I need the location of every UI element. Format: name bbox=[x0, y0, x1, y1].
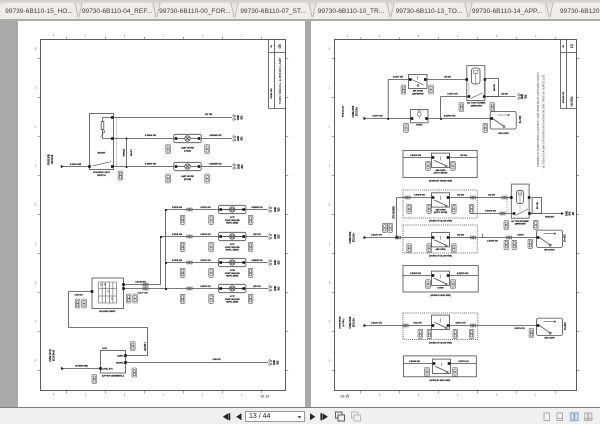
connector C1 bbox=[118, 171, 123, 180]
svg-text:(LH2A): (LH2A) bbox=[184, 149, 191, 152]
svg-text:E: E bbox=[35, 282, 37, 285]
svg-text:DOWN MODE: DOWN MODE bbox=[340, 316, 342, 329]
svg-text:(F10+AC1C): (F10+AC1C) bbox=[342, 106, 345, 117]
svg-text:(F10) B+: (F10) B+ bbox=[356, 106, 358, 116]
connector C17 bbox=[407, 204, 412, 213]
power feed arrow bbox=[364, 236, 367, 239]
svg-text:W/SEAL: W/SEAL bbox=[123, 148, 126, 157]
connector C19 bbox=[504, 221, 509, 230]
svg-text:B/D: B/D bbox=[242, 164, 244, 168]
lamp E2 bbox=[174, 162, 201, 170]
svg-text:4: 4 bbox=[329, 321, 331, 324]
pin bbox=[537, 324, 540, 327]
horn unit bbox=[432, 271, 450, 285]
svg-text:SWITCH: SWITCH bbox=[97, 175, 106, 177]
svg-text:0.5G/W GN: 0.5G/W GN bbox=[410, 273, 421, 275]
relay K2 contact links (dashed) bbox=[507, 199, 520, 214]
svg-text:G/Y GUARD: G/Y GUARD bbox=[392, 206, 395, 219]
relay K1 contact lever bbox=[471, 93, 483, 99]
svg-text:0.85B/R GD: 0.85B/R GD bbox=[251, 207, 263, 209]
svg-text:09: 09 bbox=[278, 44, 282, 48]
connector C13 bbox=[404, 123, 409, 132]
pin bbox=[466, 78, 469, 81]
connector C3 bbox=[166, 174, 171, 183]
svg-text:HORN: HORN bbox=[416, 125, 423, 127]
svg-text:B/LOW: B/LOW bbox=[494, 84, 496, 91]
svg-text:0.5P/G GN: 0.5P/G GN bbox=[458, 361, 469, 363]
svg-text:0.5P/G: 0.5P/G bbox=[517, 234, 524, 236]
svg-text:LIMIT WORK: LIMIT WORK bbox=[181, 176, 195, 178]
svg-text:STOLEN VER: STOLEN VER bbox=[563, 91, 565, 103]
control unit H-02 (LEVEL-SYS) bbox=[101, 351, 126, 374]
wire bbox=[403, 363, 476, 365]
connector C24 bbox=[529, 329, 534, 338]
svg-text:F: F bbox=[329, 360, 331, 363]
connector C12 bbox=[459, 103, 464, 112]
relay K1 coil bbox=[472, 68, 481, 84]
inline connector pair X5 bbox=[187, 287, 192, 290]
pin bbox=[433, 362, 436, 365]
svg-text:8: 8 bbox=[418, 35, 420, 38]
svg-text:0.5G GN: 0.5G GN bbox=[413, 322, 422, 324]
svg-text:GD 7/B: GD 7/B bbox=[205, 114, 213, 116]
svg-text:1: 1 bbox=[163, 35, 165, 38]
svg-text:0: 0 bbox=[202, 393, 204, 396]
svg-text:J-P/T: J-P/T bbox=[230, 217, 236, 219]
pin bbox=[175, 165, 178, 168]
relay K2 body bbox=[511, 184, 529, 218]
svg-text:0.5L/Y GN: 0.5L/Y GN bbox=[138, 293, 148, 295]
svg-text:0.5G/W GN: 0.5G/W GN bbox=[410, 155, 421, 157]
wire bbox=[103, 118, 112, 139]
ground bbox=[233, 163, 236, 170]
svg-text:B/X: B/X bbox=[525, 94, 527, 98]
air horn speaker bbox=[537, 318, 563, 336]
svg-text:0: 0 bbox=[202, 35, 204, 38]
wire bbox=[160, 237, 162, 285]
svg-text:LAMP1: LAMP1 bbox=[117, 355, 123, 358]
svg-text:0.5G/Y GN: 0.5G/Y GN bbox=[447, 93, 458, 95]
tab bar bbox=[0, 0, 600, 21]
svg-text:JOINT W/HOSE: JOINT W/HOSE bbox=[225, 220, 241, 222]
svg-text:1: 1 bbox=[329, 87, 331, 90]
inline connector pair X7 bbox=[405, 196, 410, 199]
connector block (B/X) at K2 bbox=[532, 198, 541, 214]
relay K3 contact grid bbox=[99, 282, 117, 303]
power feed arrow bbox=[364, 324, 367, 327]
svg-text:JOINT W/HOSE: JOINT W/HOSE bbox=[225, 273, 241, 275]
svg-text:GND: GND bbox=[275, 234, 277, 239]
svg-text:(J-T ALL): (J-T ALL) bbox=[342, 318, 345, 326]
svg-text:0.5P/G GN: 0.5P/G GN bbox=[200, 207, 211, 209]
svg-text:GND: GND bbox=[275, 207, 277, 212]
junction J6 bbox=[396, 237, 398, 239]
variant container (HORN KIT SLOW VER, dashed) bbox=[403, 190, 477, 218]
svg-text:GD: GD bbox=[573, 211, 575, 215]
wire bbox=[201, 138, 232, 140]
wire bbox=[519, 195, 521, 204]
pin bbox=[124, 354, 127, 357]
connector C22 bbox=[426, 280, 431, 289]
svg-text:0.5P/G GN: 0.5P/G GN bbox=[514, 328, 525, 330]
svg-text:GD GN: GD GN bbox=[457, 195, 464, 197]
pin bbox=[432, 196, 435, 199]
svg-text:0.5R/W GN: 0.5R/W GN bbox=[145, 135, 157, 137]
wire bbox=[114, 138, 161, 140]
inline connector pair X4 bbox=[143, 287, 148, 290]
resistor R1 wiper arrow bbox=[100, 131, 105, 138]
lamp E3 bbox=[219, 205, 246, 213]
wire bbox=[396, 198, 398, 238]
wire bbox=[114, 139, 174, 167]
ground bbox=[269, 285, 272, 292]
connector C12 bbox=[131, 342, 136, 351]
pin bbox=[432, 156, 435, 159]
svg-text:(OPTION SEGMENT)-2: (OPTION SEGMENT)-2 bbox=[102, 375, 125, 377]
connector C20 bbox=[407, 244, 412, 253]
svg-text:0.5P/G GN: 0.5P/G GN bbox=[200, 234, 211, 236]
air horn speaker bbox=[537, 230, 563, 248]
svg-text:16-13: 16-13 bbox=[260, 395, 269, 399]
svg-text:8: 8 bbox=[124, 35, 126, 38]
svg-text:4: 4 bbox=[53, 393, 55, 396]
pin bbox=[411, 117, 414, 120]
svg-text:HDPIL J/E804: HDPIL J/E804 bbox=[226, 250, 240, 252]
svg-text:B/D GN: B/D GN bbox=[253, 286, 261, 288]
connector C21 bbox=[504, 240, 509, 249]
svg-text:0.5G/W GN: 0.5G/W GN bbox=[414, 195, 425, 197]
svg-text:1: 1 bbox=[163, 393, 165, 396]
svg-text:J-P/T: J-P/T bbox=[230, 296, 236, 298]
wire bbox=[486, 96, 516, 98]
svg-text:HDPIL 2/E30: HDPIL 2/E30 bbox=[226, 302, 239, 304]
svg-text:F: F bbox=[35, 360, 37, 363]
svg-text:B/D: B/D bbox=[278, 234, 280, 238]
svg-text:GND: GND bbox=[238, 115, 240, 120]
svg-text:(HORN KIT SNOW VER): (HORN KIT SNOW VER) bbox=[429, 180, 452, 182]
lamp E1 bbox=[174, 134, 201, 142]
svg-text:B/D: B/D bbox=[278, 207, 280, 211]
wire label GD B/LT bbox=[145, 342, 147, 351]
svg-text:1: 1 bbox=[535, 393, 537, 396]
wire bbox=[201, 166, 232, 168]
power feed arrow bbox=[61, 367, 64, 370]
junction J3 bbox=[165, 288, 167, 290]
svg-text:4: 4 bbox=[53, 35, 55, 38]
wire bbox=[125, 284, 161, 286]
svg-text:B/D: B/D bbox=[241, 136, 243, 140]
title block (right page) bbox=[561, 40, 577, 109]
svg-text:GND: GND bbox=[566, 211, 568, 216]
svg-text:W/LIGHT: W/LIGHT bbox=[98, 152, 107, 154]
lamp E5 bbox=[219, 258, 246, 266]
svg-text:B+ B/X: B+ B/X bbox=[565, 234, 567, 242]
wire bbox=[388, 79, 409, 81]
svg-text:GHI-6B110-07 ALWAYS WORK (J10/: GHI-6B110-07 ALWAYS WORK (J10/HIGH) LAMP… bbox=[537, 72, 540, 168]
svg-text:0.5G/Y GN: 0.5G/Y GN bbox=[372, 116, 383, 118]
horn unit bbox=[432, 193, 450, 207]
wire bbox=[69, 292, 148, 356]
junction J5 bbox=[440, 118, 442, 120]
ground bbox=[269, 233, 272, 240]
junction J1 bbox=[126, 138, 128, 140]
relay K1 body bbox=[467, 66, 485, 101]
svg-text:FUSE (F13): FUSE (F13) bbox=[50, 349, 52, 361]
svg-text:0.5P/G GN: 0.5P/G GN bbox=[200, 260, 211, 262]
relay K1 contact links (dashed) bbox=[469, 82, 484, 96]
svg-text:B/D: B/D bbox=[241, 115, 243, 119]
svg-text:B/D: B/D bbox=[278, 286, 280, 290]
ground bbox=[269, 206, 272, 213]
pin bbox=[122, 283, 125, 286]
connector C15 bbox=[383, 223, 388, 232]
svg-text:B/X: B/X bbox=[570, 211, 572, 215]
wire bbox=[397, 197, 512, 199]
svg-text:0.5G/W GN: 0.5G/W GN bbox=[485, 210, 496, 212]
svg-text:JOINT W/HOSE: JOINT W/HOSE bbox=[225, 299, 241, 301]
svg-text:AIR HORN: AIR HORN bbox=[436, 169, 446, 172]
svg-text:1: 1 bbox=[35, 87, 37, 90]
svg-text:AMP/HORN: AMP/HORN bbox=[515, 223, 526, 226]
svg-text:1: 1 bbox=[457, 393, 459, 396]
svg-text:3: 3 bbox=[85, 393, 87, 396]
svg-text:B+ B/X: B+ B/X bbox=[520, 115, 522, 123]
svg-text:GND: GND bbox=[275, 286, 277, 291]
svg-text:AIR HORN: AIR HORN bbox=[436, 248, 446, 251]
svg-text:A/C TOW STOWER: A/C TOW STOWER bbox=[467, 102, 486, 105]
inline connector pair X2 bbox=[187, 235, 192, 238]
svg-text:FUSE BOX: FUSE BOX bbox=[350, 231, 352, 243]
pin bbox=[510, 196, 513, 199]
relay K3 contact marks bbox=[100, 284, 113, 300]
svg-text:3: 3 bbox=[329, 243, 331, 246]
svg-text:2: 2 bbox=[329, 165, 331, 168]
svg-text:B: B bbox=[329, 48, 331, 51]
svg-text:(0.5)P/G GN: (0.5)P/G GN bbox=[457, 273, 469, 275]
svg-text:0.5G/O GN: 0.5G/O GN bbox=[371, 234, 382, 236]
svg-text:0.5P/G GN: 0.5P/G GN bbox=[200, 286, 211, 288]
wire bbox=[403, 157, 477, 159]
svg-text:ECU 5A+B: ECU 5A+B bbox=[52, 349, 55, 361]
svg-text:1: 1 bbox=[457, 35, 459, 38]
svg-text:0.85B/R GD: 0.85B/R GD bbox=[251, 260, 263, 262]
svg-text:FUSE BOX: FUSE BOX bbox=[353, 105, 355, 117]
inline connector pair X6 bbox=[143, 283, 148, 286]
svg-text:GD GN: GD GN bbox=[444, 76, 451, 78]
horn unit bbox=[432, 233, 450, 247]
svg-text:HDPIL 2/E30: HDPIL 2/E30 bbox=[226, 276, 239, 278]
svg-text:0.5R/G WB: 0.5R/G WB bbox=[70, 164, 82, 166]
air horn amp unit U1 bbox=[409, 75, 428, 89]
power feed arrow bbox=[61, 165, 64, 168]
svg-text:(HORN KIT SLOW VER): (HORN KIT SLOW VER) bbox=[429, 220, 452, 222]
connector C9 bbox=[126, 294, 131, 303]
inline connector pair X8 bbox=[500, 212, 505, 215]
svg-text:3: 3 bbox=[35, 243, 37, 246]
svg-text:B/D GN: B/D GN bbox=[253, 234, 261, 236]
wire bbox=[367, 118, 411, 120]
variant container (HORN KIT SNOW VER) bbox=[403, 151, 477, 178]
horn symbol inside S2 bbox=[417, 112, 421, 116]
svg-text:B/X GD: B/X GD bbox=[537, 202, 539, 209]
svg-text:3: 3 bbox=[85, 35, 87, 38]
svg-text:8: 8 bbox=[124, 393, 126, 396]
svg-text:FUSE (F6): FUSE (F6) bbox=[48, 154, 50, 165]
svg-text:GND: GND bbox=[522, 94, 524, 99]
svg-text:SH: SH bbox=[563, 44, 565, 47]
pin bbox=[537, 236, 540, 239]
variant container (HORN KIT SLOW VER 3, dashed) bbox=[403, 313, 478, 340]
svg-text:0.85W/B GD: 0.85W/B GD bbox=[209, 164, 222, 166]
ground bbox=[518, 93, 521, 100]
svg-text:0: 0 bbox=[496, 35, 498, 38]
svg-text:10A W+B: 10A W+B bbox=[51, 154, 54, 164]
svg-text:0.5L/W GN: 0.5L/W GN bbox=[135, 281, 146, 283]
svg-text:HORN: HORN bbox=[570, 96, 574, 107]
svg-text:AIR HORN: AIR HORN bbox=[498, 132, 509, 135]
relay K2 contact lever bbox=[516, 209, 529, 216]
pin bbox=[432, 236, 435, 239]
connector C4 bbox=[180, 215, 185, 224]
switch lever inside U1 bbox=[412, 76, 424, 85]
svg-text:AIR HORN: AIR HORN bbox=[413, 90, 424, 93]
svg-text:AMP/HORN: AMP/HORN bbox=[471, 104, 483, 107]
svg-text:HLEVK3: HLEVK3 bbox=[116, 363, 123, 365]
svg-text:AMP/DRIVE: AMP/DRIVE bbox=[412, 93, 424, 96]
pin bbox=[432, 274, 435, 277]
variant container (HORN ID SIGN VER 2) bbox=[403, 356, 476, 377]
svg-text:10: 10 bbox=[570, 44, 574, 48]
connector C8 bbox=[75, 299, 80, 308]
svg-text:B/D: B/D bbox=[278, 260, 280, 264]
wire bbox=[124, 288, 268, 290]
inline connector pair X10 bbox=[470, 236, 475, 239]
svg-text:A/T TOW STOWER: A/T TOW STOWER bbox=[511, 220, 529, 223]
svg-text:GND: GND bbox=[238, 164, 240, 169]
wire bbox=[367, 237, 433, 239]
pin bbox=[490, 117, 493, 120]
inline connector pair X11 bbox=[403, 324, 408, 327]
svg-text:1: 1 bbox=[241, 393, 243, 396]
svg-text:3: 3 bbox=[379, 35, 381, 38]
wire bbox=[127, 362, 268, 364]
wire bbox=[449, 325, 537, 327]
svg-text:(RH2B): (RH2B) bbox=[184, 179, 192, 181]
wire bbox=[475, 73, 477, 84]
svg-text:4: 4 bbox=[347, 35, 349, 38]
pin bbox=[111, 116, 114, 119]
connector C10 bbox=[92, 375, 97, 384]
svg-text:E: E bbox=[329, 282, 331, 285]
svg-text:0.5P/B GN: 0.5P/B GN bbox=[172, 260, 182, 262]
air horn speaker bbox=[490, 112, 516, 130]
connector C5 bbox=[180, 242, 185, 251]
wire bbox=[367, 325, 433, 327]
connector C11 bbox=[132, 368, 137, 377]
svg-text:GND: GND bbox=[275, 260, 277, 265]
inline connector pair X1 bbox=[187, 208, 192, 211]
svg-text:GD/B B/X: GD/B B/X bbox=[545, 217, 555, 219]
svg-text:B: B bbox=[35, 48, 37, 51]
svg-text:DETAIL W/H: DETAIL W/H bbox=[270, 88, 273, 99]
svg-text:(HORN KIT SLOW VER): (HORN KIT SLOW VER) bbox=[429, 256, 452, 258]
relay K2 coil bbox=[517, 190, 524, 203]
title block (left page) bbox=[269, 40, 286, 109]
svg-text:B/D: B/D bbox=[277, 360, 279, 364]
relay K3 (HOLDING RELAY) body bbox=[92, 278, 124, 309]
svg-text:SH: SH bbox=[271, 44, 273, 47]
wire bbox=[531, 213, 561, 215]
svg-text:0.5G/W GN: 0.5G/W GN bbox=[409, 361, 420, 363]
inline connector pair X12 bbox=[470, 324, 475, 327]
connector C23 bbox=[418, 329, 423, 338]
wire bbox=[471, 213, 513, 215]
svg-text:0.5G/Y GN: 0.5G/Y GN bbox=[393, 76, 404, 78]
svg-text:GD B/LT: GD B/LT bbox=[145, 342, 147, 351]
wire bbox=[427, 79, 467, 81]
svg-text:(F10) B+: (F10) B+ bbox=[353, 317, 355, 327]
ground bbox=[269, 359, 272, 366]
ground arrow at K2 output bbox=[561, 212, 564, 215]
svg-text:AIR HORN: AIR HORN bbox=[436, 209, 446, 212]
horn unit bbox=[432, 315, 450, 329]
svg-text:AIR HORN: AIR HORN bbox=[544, 337, 555, 340]
horn unit bbox=[433, 359, 451, 373]
svg-text:0.5R/W GN: 0.5R/W GN bbox=[145, 164, 157, 166]
svg-text:(ALT/01/4/DH) ALWAYS AT WORKS: (ALT/01/4/DH) ALWAYS AT WORKS WITH HORN … bbox=[543, 74, 546, 168]
svg-text:JOINT W/HOSE: JOINT W/HOSE bbox=[225, 247, 241, 249]
junction J4 bbox=[387, 118, 389, 120]
svg-text:C: C bbox=[329, 126, 331, 129]
svg-text:(0.5)P/G GN: (0.5)P/G GN bbox=[444, 116, 456, 118]
svg-text:16-14: 16-14 bbox=[340, 395, 349, 399]
svg-text:(0.5W/G WB): (0.5W/G WB) bbox=[75, 365, 88, 367]
connector C7 bbox=[180, 294, 185, 303]
connector block (B/LOW) at K1 bbox=[485, 79, 499, 97]
svg-text:D: D bbox=[329, 204, 331, 207]
connector C18 bbox=[534, 220, 539, 229]
inline connector pair X3 bbox=[187, 261, 192, 264]
wire bbox=[428, 118, 490, 120]
svg-text:C: C bbox=[35, 126, 37, 129]
svg-text:0.85W/B GD: 0.85W/B GD bbox=[209, 135, 222, 137]
connector C14 bbox=[483, 123, 488, 132]
switch S1 mechanical link (dotted) bbox=[116, 118, 118, 167]
svg-text:0.5P/B GN: 0.5P/B GN bbox=[172, 234, 182, 236]
ground bbox=[269, 259, 272, 266]
svg-text:HDPIL 2/E30: HDPIL 2/E30 bbox=[226, 223, 239, 225]
svg-text:0: 0 bbox=[496, 393, 498, 396]
pin bbox=[513, 212, 516, 215]
svg-text:B+ B/X: B+ B/X bbox=[565, 322, 567, 330]
wire bbox=[165, 210, 167, 289]
svg-text:GD GN: GD GN bbox=[460, 155, 467, 157]
power feed arrow bbox=[364, 117, 367, 120]
svg-text:(AUTO SLOW): (AUTO SLOW) bbox=[434, 211, 448, 214]
connector C2 bbox=[166, 145, 171, 154]
connector C25 bbox=[425, 368, 430, 377]
svg-text:AIR HORN: AIR HORN bbox=[544, 248, 555, 251]
svg-text:(AUTO SNOW): (AUTO SNOW) bbox=[434, 171, 448, 174]
svg-text:GD/TO GN: GD/TO GN bbox=[455, 322, 466, 324]
switch S1 (HOLDING LIGHT SWITCH) body bbox=[90, 114, 114, 170]
connector C16 bbox=[426, 161, 431, 170]
svg-text:(HORN KIT SLOW VER): (HORN KIT SLOW VER) bbox=[429, 343, 452, 345]
svg-text:2: 2 bbox=[35, 165, 37, 168]
svg-text:(F10) B+: (F10) B+ bbox=[353, 232, 355, 242]
svg-text:LEVEL-SYS: LEVEL-SYS bbox=[102, 369, 113, 371]
svg-text:1: 1 bbox=[241, 35, 243, 38]
